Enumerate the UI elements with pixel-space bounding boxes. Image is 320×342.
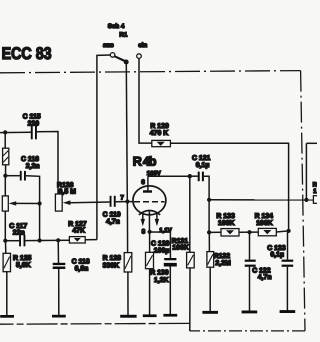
- capacitor C115: [31, 126, 37, 140]
- node: switch arm pivot: [124, 60, 129, 65]
- wire: anode node down to R131: [189, 176, 191, 252]
- tube anode riser: [147, 176, 149, 191]
- ground tick C120: [163, 314, 177, 317]
- wire: chain node to R133: [209, 231, 221, 233]
- svg-text:C 118: C 118: [72, 259, 90, 266]
- wire: C123 to ground: [286, 267, 288, 312]
- node: wiper junction on riser: [38, 201, 42, 205]
- wire: anode node to C121: [190, 175, 198, 177]
- node: rail R126/C118 junction: [56, 238, 60, 242]
- switch Sch4 contact aus: [110, 53, 115, 58]
- wire: grid node down to R128: [126, 202, 128, 253]
- ground tick R130: [143, 314, 157, 317]
- svg-text:6: 6: [141, 179, 145, 186]
- svg-text:1,2K: 1,2K: [154, 277, 169, 284]
- resistor R133 100K: [221, 229, 239, 236]
- svg-text:22n: 22n: [13, 230, 25, 237]
- svg-text:8: 8: [142, 229, 146, 236]
- node: signal node: [207, 198, 211, 202]
- wire: anode to C121 node: [148, 175, 190, 177]
- ground tick R132: [202, 311, 218, 314]
- resistor R131 100K: [187, 252, 195, 268]
- node: input junction: [3, 130, 7, 134]
- potentiometer wiper arrow: [9, 201, 40, 205]
- resistor R129 470K: [152, 140, 171, 146]
- wire: R134 to chain right junction: [276, 231, 288, 232]
- capacitor C122 47n: [245, 260, 256, 267]
- resistor R130 1,2K: [146, 252, 154, 268]
- svg-text:1: 1: [313, 188, 317, 195]
- wire: R125 to ground: [6, 272, 8, 316]
- svg-text:R 130: R 130: [150, 270, 169, 277]
- wire: cathode leg down: [148, 211, 150, 232]
- wire: signal out to next stage: [209, 199, 313, 201]
- svg-text:C 119: C 119: [103, 211, 121, 218]
- svg-text:Sch 4: Sch 4: [108, 23, 125, 30]
- wire: C118 to ground: [58, 269, 60, 316]
- wire: C120 to ground: [169, 267, 171, 316]
- wire: R129 to B+ corner: [170, 143, 288, 231]
- svg-text:aus: aus: [103, 42, 114, 49]
- node: rail riser junction: [38, 238, 42, 242]
- svg-text:330K: 330K: [103, 263, 119, 270]
- wire: C116 right to vertical riser: [26, 176, 40, 204]
- resistor R132 2,2M: [207, 252, 214, 268]
- wire: node A2 down to potentiometer: [4, 176, 6, 196]
- svg-text:R 134: R 134: [255, 213, 274, 220]
- node: chain right junction: [287, 229, 291, 233]
- wire: C119 to tube grid: [116, 201, 134, 203]
- wire: input from left edge: [0, 131, 31, 133]
- tube R4b envelope: [133, 186, 166, 215]
- svg-text:5,6K: 5,6K: [16, 262, 31, 269]
- svg-text:R 133: R 133: [216, 213, 235, 220]
- wire: chain right down to C123: [287, 231, 289, 260]
- resistor next stage (partial, right edge): [313, 196, 319, 204]
- chassis screen boundary bottom right (dash-dot): [190, 330, 305, 332]
- capacitor C116: [20, 171, 26, 181]
- svg-text:7: 7: [120, 194, 124, 201]
- resistor R128 330K: [124, 253, 132, 272]
- node: anode junction: [188, 174, 192, 178]
- node: junction left chain / C116: [3, 174, 7, 178]
- node: chain left junction: [207, 230, 211, 234]
- resistor R125 5,6K: [3, 253, 10, 271]
- tube cathode arc: [139, 211, 160, 215]
- ground tick R125: [0, 315, 14, 318]
- wire: chain node down to R132: [208, 232, 210, 251]
- svg-text:220: 220: [28, 120, 40, 127]
- svg-text:100K: 100K: [218, 220, 234, 227]
- wire: chain middle down to C122: [249, 232, 251, 260]
- wire: input junction down to hatched resistor: [4, 132, 6, 148]
- capacitor C123 0,1µ: [282, 260, 294, 267]
- svg-text:0,5 M: 0,5 M: [59, 188, 76, 195]
- svg-text:100K: 100K: [256, 220, 272, 227]
- svg-text:R132: R132: [214, 253, 231, 260]
- resistor R134 100K: [258, 228, 276, 235]
- wire: C121 right to signal node: [204, 176, 209, 200]
- wire: ein contact down and to R129: [139, 58, 152, 143]
- node: grid junction: [125, 199, 129, 203]
- wire: next stage top stub: [306, 142, 317, 144]
- wire: signal node down to chain: [208, 200, 210, 233]
- wire: riser down to rail: [39, 204, 41, 241]
- resistor R127 47K: [69, 237, 85, 243]
- switch Sch4 contact ein: [137, 54, 142, 59]
- tube heater leg left with arrow: [141, 213, 145, 227]
- ground tick R128: [120, 315, 136, 318]
- svg-text:0,1µ: 0,1µ: [270, 252, 284, 259]
- svg-text:ein: ein: [138, 42, 147, 49]
- chassis screen boundary bottom left (dash-dot): [0, 322, 190, 325]
- tube grid dashes: [134, 201, 165, 203]
- wire: cathode node down to R130: [149, 232, 151, 253]
- resistor R126 0,5M (adjustable): [55, 194, 70, 211]
- capacitor C117: [19, 235, 25, 246]
- capacitor C121 0,1µ: [198, 172, 204, 182]
- capacitor C119: [110, 196, 116, 207]
- svg-text:470 K: 470 K: [150, 130, 168, 137]
- wire: R128 to ground: [127, 272, 129, 316]
- svg-text:4,7n: 4,7n: [258, 274, 272, 281]
- svg-text:ECC 83: ECC 83: [2, 44, 52, 63]
- node: next stage junction: [304, 198, 308, 202]
- svg-text:2,2n: 2,2n: [26, 163, 40, 170]
- chassis screen boundary right (dash-dot): [301, 71, 305, 331]
- ground tick C123: [280, 310, 296, 313]
- wire: next stage vertical stub: [305, 143, 307, 200]
- chassis screen boundary top (dash-dot): [0, 71, 301, 73]
- svg-text:R 125: R 125: [13, 255, 32, 262]
- svg-text:R 4b: R 4b: [133, 154, 157, 168]
- svg-text:C 116: C 116: [21, 156, 39, 163]
- tube heater leg right with arrow: [155, 213, 159, 227]
- capacitor C120 100µ (electrolytic): [164, 258, 177, 267]
- wire: C115 to R126 top: [37, 132, 58, 195]
- svg-text:100µ: 100µ: [154, 247, 169, 254]
- node: rail left junction: [3, 239, 7, 243]
- svg-text:C 121: C 121: [192, 155, 211, 162]
- wire: R131 down to chassis corner: [189, 268, 191, 331]
- node: chain middle junction: [247, 230, 251, 234]
- wire: R132 to ground: [209, 267, 211, 312]
- svg-text:4,7n: 4,7n: [106, 219, 120, 226]
- wire: node to C116: [5, 175, 19, 177]
- wire: rail riser junction to R127: [40, 239, 70, 241]
- node: cathode junction: [148, 230, 152, 234]
- wire: C117 to riser junction: [25, 240, 39, 242]
- ground tick C118: [52, 315, 66, 318]
- ground tick C122: [242, 311, 258, 314]
- wire: hatched resistor to node A2: [5, 165, 7, 176]
- tube anode plate bar: [143, 190, 152, 192]
- wire: rail to C117: [5, 240, 19, 242]
- wire: switch arm down to grid node: [126, 64, 127, 201]
- potentiometer (left, box): [2, 196, 8, 211]
- resistor (hatched box, input series): [3, 148, 9, 165]
- wire: C122 to ground: [249, 267, 251, 312]
- wire: mute riser up to switch aus contact: [97, 55, 110, 240]
- wire: rail junction down to C118: [57, 240, 59, 263]
- wire: grid wire R126 wiper to C119: [70, 201, 109, 204]
- svg-text:2,2M: 2,2M: [215, 260, 231, 267]
- svg-text:0,1µ: 0,1µ: [196, 162, 210, 169]
- wire: R133 to R134: [239, 231, 258, 233]
- svg-text:100K: 100K: [172, 244, 188, 251]
- wire: potentiometer bottom to rail: [4, 211, 6, 241]
- capacitor C118 6,8n: [53, 263, 66, 269]
- svg-text:C 120: C 120: [151, 240, 170, 247]
- svg-text:R1: R1: [119, 32, 127, 39]
- wire: rail left node down to R125: [5, 241, 7, 254]
- svg-text:R 128: R 128: [103, 255, 122, 262]
- svg-text:6,8n: 6,8n: [75, 266, 89, 273]
- switch Sch4 arm: [115, 56, 125, 61]
- svg-text:47K: 47K: [72, 228, 85, 235]
- wire: R130 to ground: [149, 269, 151, 316]
- wire: R127 right to mute riser: [85, 239, 97, 241]
- wire: cathode to C120: [150, 232, 171, 258]
